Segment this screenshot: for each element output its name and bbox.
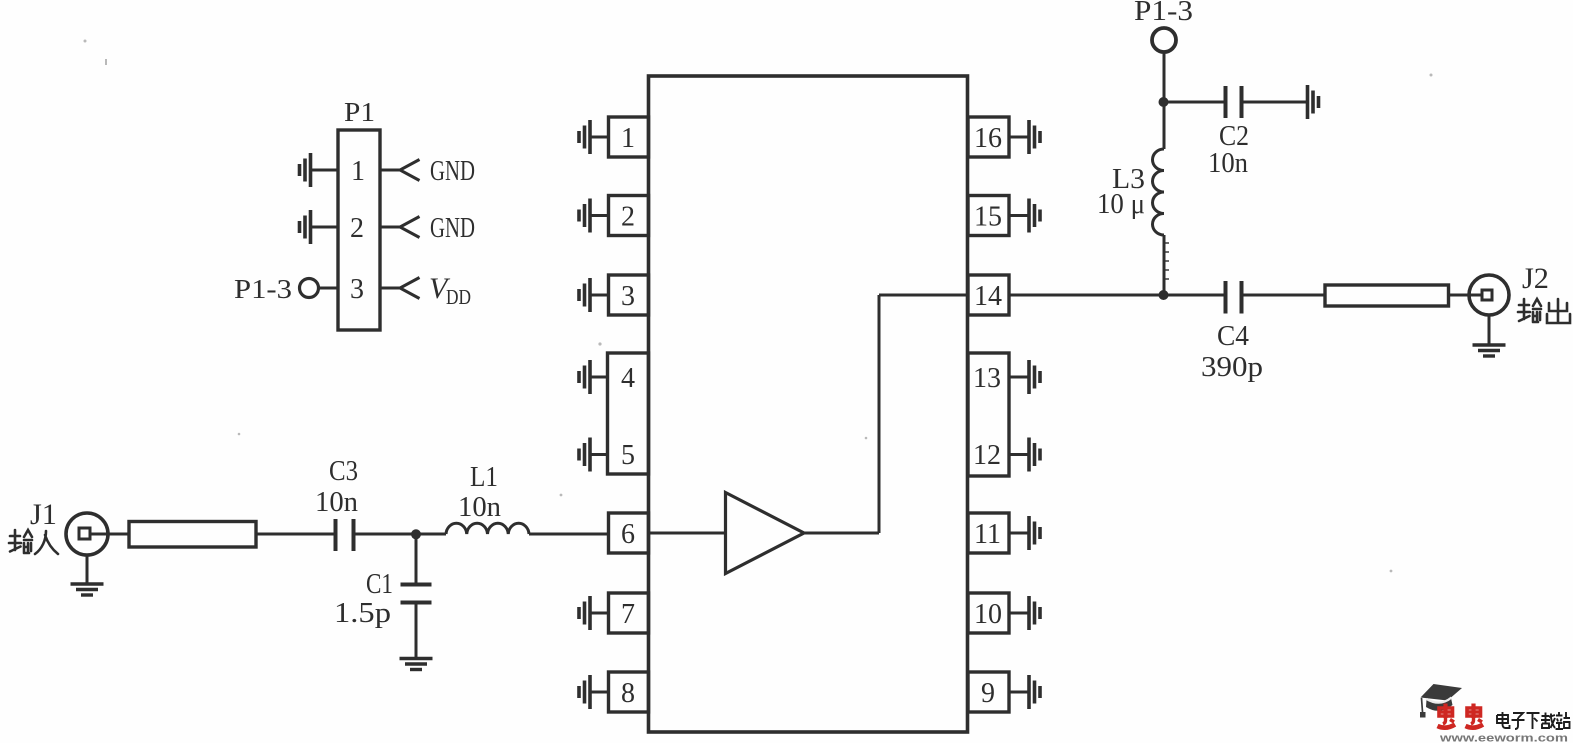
wire amplifier output vertical bbox=[878, 295, 881, 533]
svg-text:6: 6 bbox=[621, 519, 635, 550]
svg-text:7: 7 bbox=[621, 599, 635, 630]
ground (J1) bbox=[86, 555, 89, 584]
node P1-3 (supply pad) bbox=[1152, 28, 1176, 52]
capacitor C1 bbox=[401, 585, 432, 603]
svg-text:J2: J2 bbox=[1522, 262, 1549, 295]
svg-text:11: 11 bbox=[974, 519, 1001, 550]
wire C2 to ground bbox=[1242, 101, 1308, 104]
ground bbox=[1029, 120, 1040, 154]
ground (J2) bbox=[1488, 315, 1491, 345]
svg-text:C4: C4 bbox=[1217, 321, 1249, 352]
ground bbox=[400, 659, 433, 670]
inductor L3 bbox=[1153, 149, 1165, 235]
ground bbox=[300, 153, 311, 187]
microstrip line (output) bbox=[1325, 285, 1449, 306]
ground bbox=[1029, 438, 1040, 472]
capacitor C4 bbox=[1226, 281, 1242, 314]
pin 9 bbox=[968, 672, 1009, 712]
wire pin 14 to C4 bbox=[1009, 294, 1226, 297]
connector J1 bbox=[66, 513, 108, 555]
wire P1-3 to L3 bbox=[1163, 52, 1166, 149]
pin 10 bbox=[968, 593, 1009, 633]
svg-text:3: 3 bbox=[621, 281, 635, 312]
svg-text:10n: 10n bbox=[458, 492, 501, 523]
ground bbox=[1029, 199, 1040, 233]
microstrip line (input) bbox=[129, 522, 256, 548]
connector J2 bbox=[1469, 275, 1509, 315]
svg-text:P1-3: P1-3 bbox=[1134, 0, 1193, 27]
pin arrow bbox=[400, 278, 420, 299]
ground bbox=[579, 596, 590, 630]
svg-text:10n: 10n bbox=[315, 487, 358, 518]
pin 11 bbox=[968, 513, 1009, 553]
op-amp (internal amplifier) bbox=[726, 493, 805, 574]
svg-text:www.eeworm.com: www.eeworm.com bbox=[1439, 733, 1569, 743]
wire node B to C2 bbox=[1164, 101, 1226, 104]
wire P1 pin stub right bbox=[380, 169, 400, 172]
svg-text:5: 5 bbox=[621, 440, 635, 471]
pin 8 bbox=[609, 672, 649, 712]
svg-text:GND: GND bbox=[430, 155, 475, 187]
pin 13 and pin 12 (shared box) bbox=[968, 353, 1009, 476]
ground bbox=[579, 438, 590, 472]
wire C4 to microstrip bbox=[1242, 294, 1326, 297]
wire C3 to L1 bbox=[354, 533, 447, 536]
pin 2 bbox=[609, 196, 649, 236]
svg-text:1: 1 bbox=[351, 156, 365, 187]
svg-text:4: 4 bbox=[621, 363, 635, 394]
pin 6 bbox=[609, 513, 649, 553]
wire pin ground stub bbox=[1009, 612, 1029, 615]
svg-text:L1: L1 bbox=[470, 462, 498, 493]
svg-text:C3: C3 bbox=[329, 456, 358, 487]
wire pin ground stub bbox=[590, 453, 609, 456]
pin 1 bbox=[609, 117, 649, 157]
svg-text:GND: GND bbox=[430, 212, 475, 244]
svg-text:1.5p: 1.5p bbox=[334, 598, 391, 629]
wire pin ground stub bbox=[1009, 453, 1029, 456]
svg-text:2: 2 bbox=[621, 202, 635, 233]
svg-text:P1: P1 bbox=[344, 97, 375, 127]
junction node C bbox=[1159, 290, 1169, 300]
ground bbox=[1029, 675, 1040, 709]
pin 15 bbox=[968, 196, 1009, 236]
pin 3 bbox=[609, 275, 649, 315]
ground bbox=[1029, 360, 1040, 394]
wire pin ground stub bbox=[1009, 376, 1029, 379]
pin 4 and pin 5 (shared box) bbox=[608, 353, 649, 474]
wire pin ground stub bbox=[590, 294, 609, 297]
node P1-3 (pad) bbox=[300, 279, 319, 298]
wire C1 to ground bbox=[415, 603, 418, 659]
wire to pin 14 bbox=[879, 294, 968, 297]
label 输入 (input) bbox=[9, 530, 58, 554]
svg-text:13: 13 bbox=[973, 363, 1001, 394]
ground bbox=[71, 584, 104, 595]
svg-text:8: 8 bbox=[621, 678, 635, 709]
connector P1 body bbox=[338, 130, 380, 330]
wire P1 pin stub bbox=[311, 226, 338, 229]
svg-text:390p: 390p bbox=[1201, 352, 1263, 383]
wire pin ground stub bbox=[590, 691, 609, 694]
pin 7 bbox=[609, 593, 649, 633]
scan ticks on wire bbox=[1165, 243, 1169, 279]
svg-text:16: 16 bbox=[974, 123, 1002, 154]
junction node A bbox=[411, 529, 421, 539]
label 输出 (output) bbox=[1518, 299, 1570, 323]
wire amplifier output bbox=[804, 532, 879, 535]
wire pin ground stub bbox=[590, 376, 609, 379]
ground bbox=[1029, 516, 1040, 550]
svg-text:3: 3 bbox=[350, 274, 364, 305]
svg-text:10: 10 bbox=[974, 599, 1002, 630]
ground bbox=[579, 120, 590, 154]
wire P1-3 to P1 bbox=[319, 287, 339, 290]
svg-text:10n: 10n bbox=[1208, 148, 1248, 179]
wire pin6 to amplifier bbox=[649, 532, 726, 535]
ground bbox=[579, 360, 590, 394]
ground bbox=[579, 199, 590, 233]
wire pin ground stub bbox=[1009, 136, 1029, 139]
pin 16 bbox=[968, 117, 1009, 157]
wire node A to C1 bbox=[415, 534, 418, 584]
ground bbox=[1473, 345, 1506, 356]
wire pin ground stub bbox=[1009, 214, 1029, 217]
capacitor C2 bbox=[1226, 86, 1242, 118]
wire pin ground stub bbox=[590, 612, 609, 615]
ground bbox=[1308, 85, 1319, 119]
svg-text:J1: J1 bbox=[30, 498, 57, 531]
pin arrow bbox=[400, 160, 420, 181]
wire microstrip to C3 bbox=[256, 533, 336, 536]
svg-text:12: 12 bbox=[973, 440, 1001, 471]
wire P1 pin stub bbox=[311, 169, 338, 172]
wire L1 to pin 6 bbox=[529, 533, 609, 536]
IC U1 body bbox=[649, 76, 968, 732]
svg-text:10 μ: 10 μ bbox=[1097, 189, 1145, 220]
ground bbox=[300, 210, 311, 244]
svg-text:14: 14 bbox=[974, 281, 1002, 312]
wire P1 pin stub right bbox=[380, 226, 400, 229]
capacitor C3 bbox=[336, 519, 354, 551]
watermark logo (decorative) bbox=[1420, 684, 1570, 743]
svg-text:9: 9 bbox=[981, 678, 995, 709]
wire pin ground stub bbox=[1009, 532, 1029, 535]
svg-text:1: 1 bbox=[621, 123, 635, 154]
wire pin ground stub bbox=[1009, 691, 1029, 694]
pin arrow bbox=[400, 217, 420, 238]
pin 14 bbox=[968, 275, 1009, 315]
ground bbox=[579, 675, 590, 709]
ground bbox=[579, 278, 590, 312]
wire pin ground stub bbox=[590, 136, 609, 139]
wire J1 to microstrip bbox=[90, 533, 129, 536]
ground bbox=[1029, 596, 1040, 630]
wire microstrip to J2 bbox=[1449, 294, 1484, 297]
wire P1 pin stub right bbox=[380, 287, 400, 290]
svg-text:C1: C1 bbox=[366, 569, 393, 600]
junction node B bbox=[1159, 97, 1169, 107]
wire L3 to output node bbox=[1163, 235, 1166, 295]
svg-text:DD: DD bbox=[446, 285, 471, 309]
svg-text:2: 2 bbox=[350, 213, 364, 244]
svg-text:15: 15 bbox=[974, 202, 1002, 233]
svg-text:P1-3: P1-3 bbox=[234, 274, 292, 304]
inductor L1 bbox=[446, 523, 529, 534]
wire pin ground stub bbox=[590, 214, 609, 217]
